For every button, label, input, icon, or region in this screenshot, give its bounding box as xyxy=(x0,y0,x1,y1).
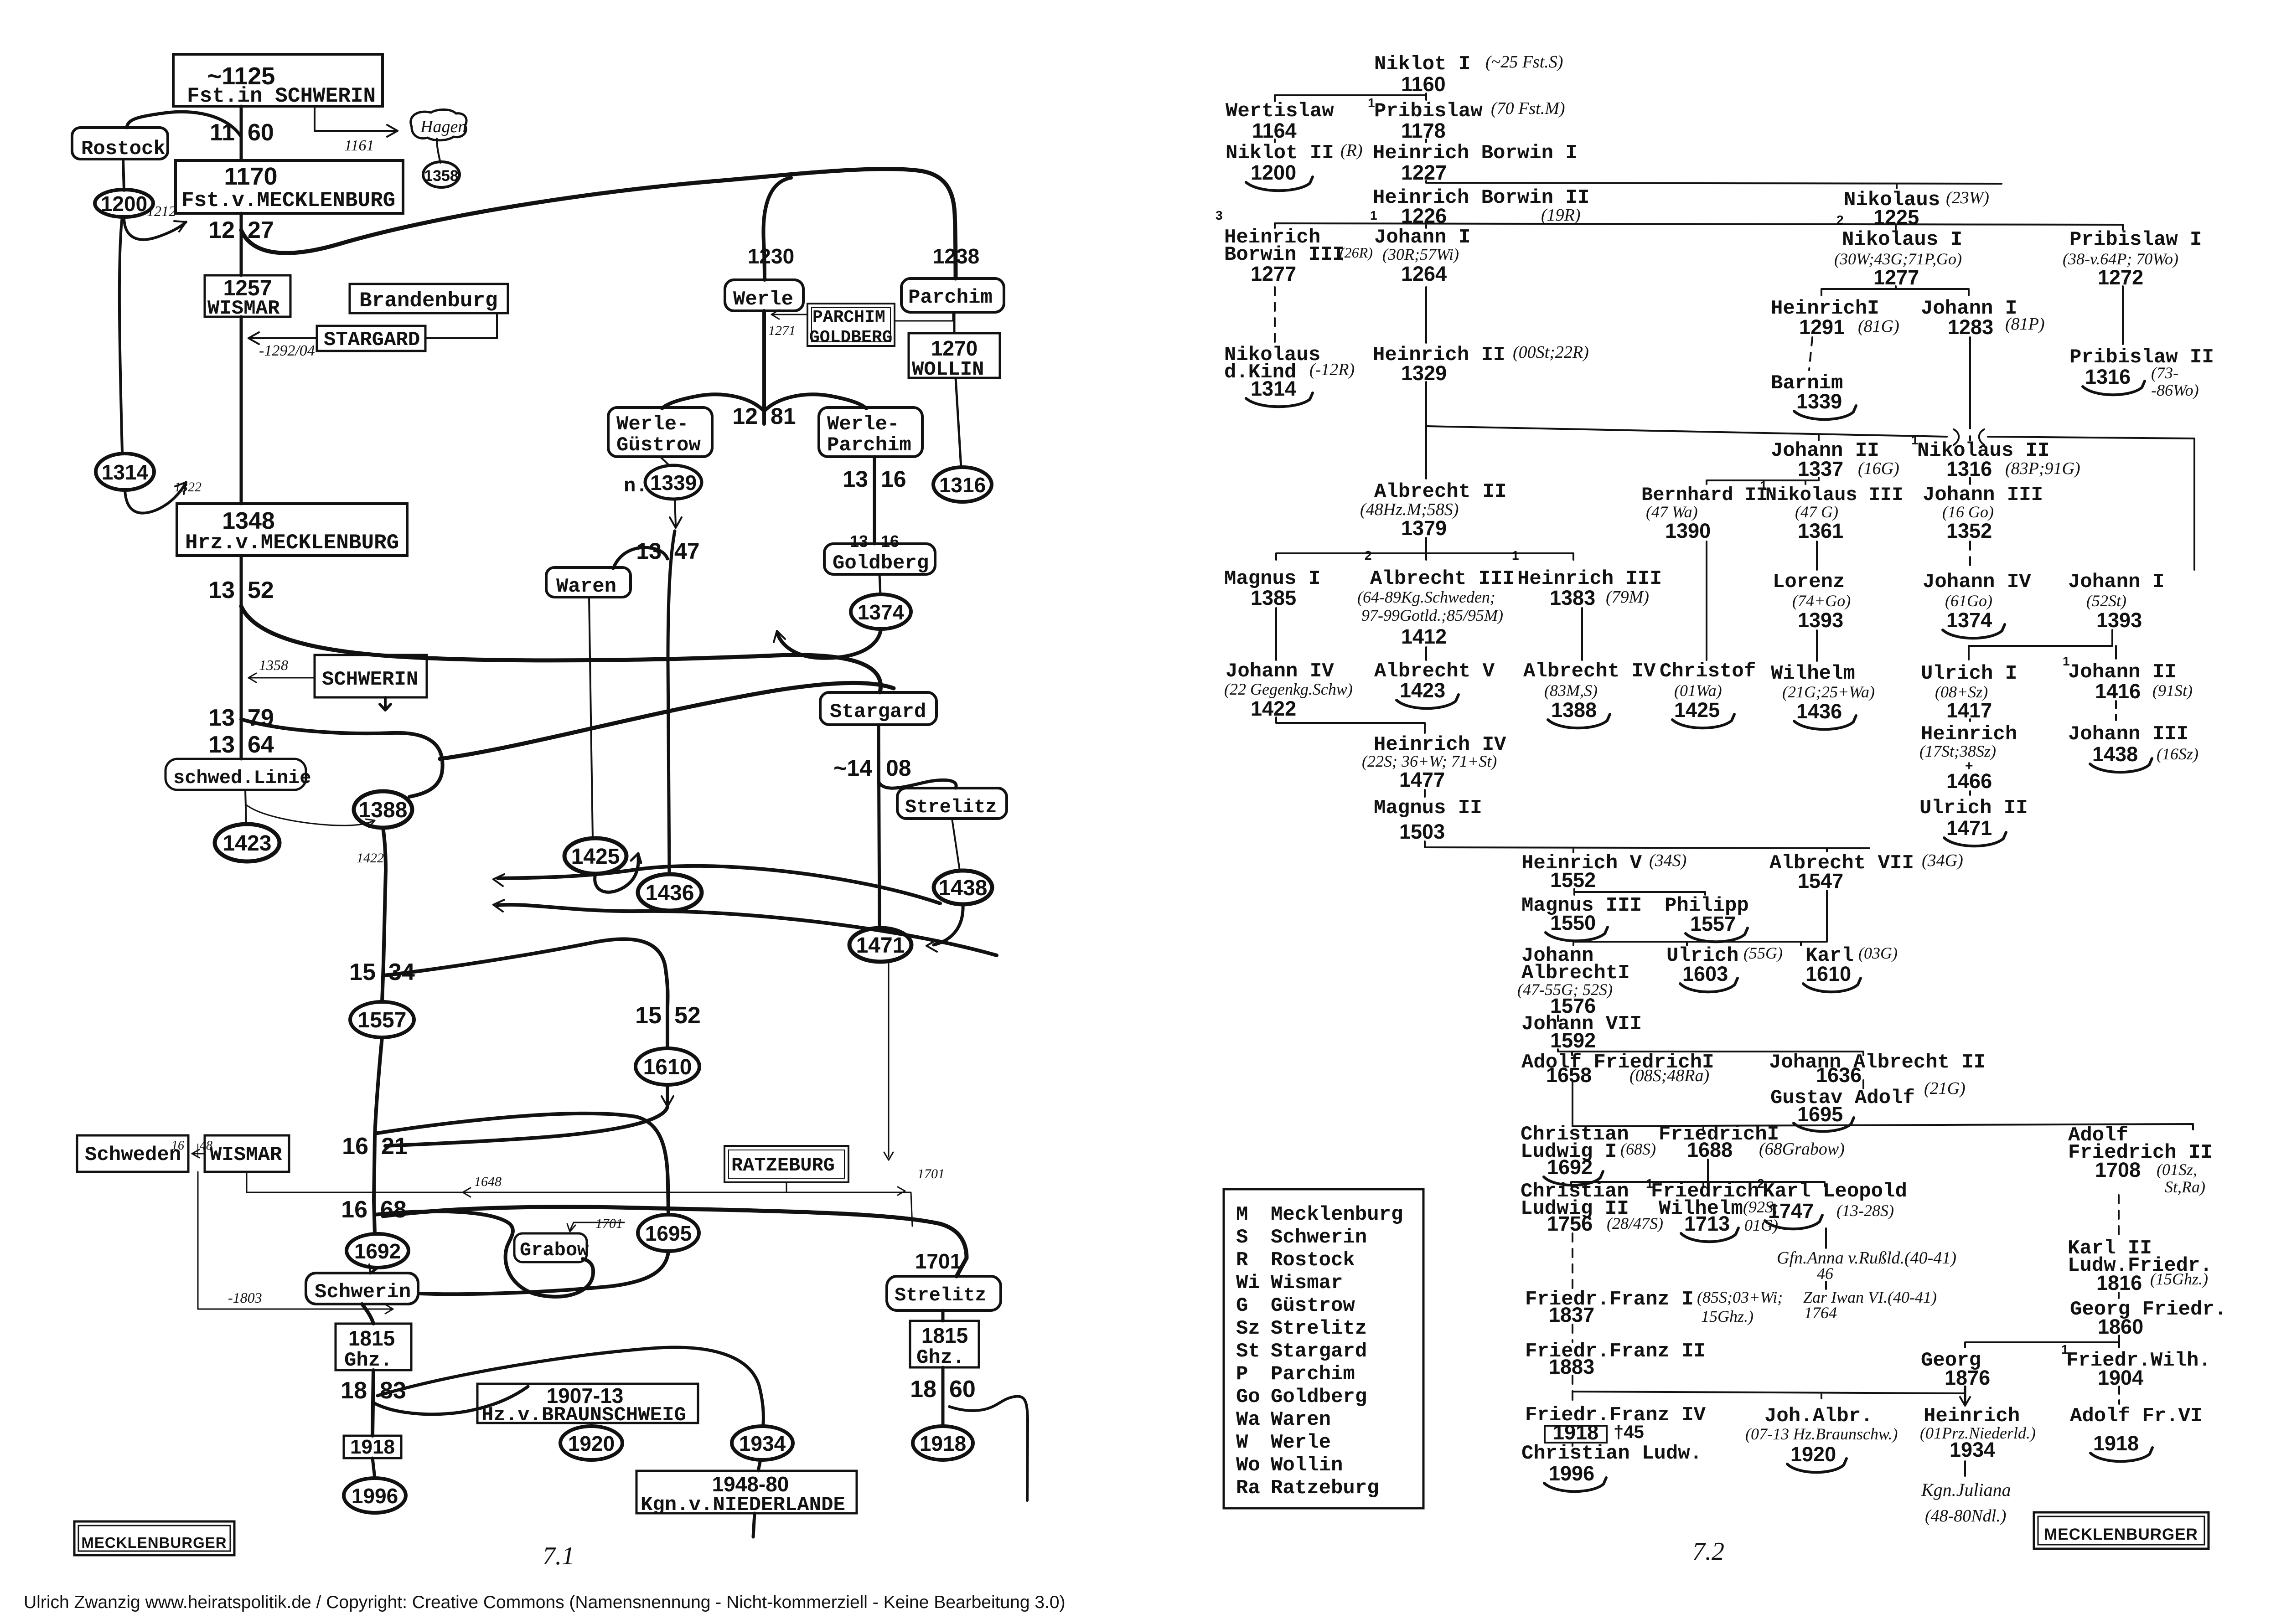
svg-text:(30R;57Wi): (30R;57Wi) xyxy=(1382,245,1459,263)
svg-text:1603: 1603 xyxy=(1682,962,1728,985)
svg-text:52: 52 xyxy=(248,577,274,603)
svg-text:Ghz.: Ghz. xyxy=(916,1346,965,1369)
svg-text:1438: 1438 xyxy=(939,876,988,900)
svg-text:1918: 1918 xyxy=(2093,1432,2139,1455)
svg-text:WISMAR: WISMAR xyxy=(210,1144,282,1166)
wire Anna to Zar Iwan xyxy=(1825,1282,1827,1289)
svg-text:Fst.v.MECKLENBURG: Fst.v.MECKLENBURG xyxy=(181,189,395,212)
svg-text:Georg Friedr.: Georg Friedr. xyxy=(2070,1298,2226,1321)
svg-text:48: 48 xyxy=(200,1139,212,1153)
svg-text:(81G): (81G) xyxy=(1858,317,1899,336)
svg-text:Strelitz: Strelitz xyxy=(1271,1317,1367,1340)
svg-text:n.: n. xyxy=(624,475,648,498)
svg-text:Rostock: Rostock xyxy=(1271,1249,1355,1272)
svg-text:W: W xyxy=(1236,1431,1248,1454)
svg-text:1374: 1374 xyxy=(1946,608,1992,632)
svg-text:Wilhelm: Wilhelm xyxy=(1771,662,1855,685)
svg-text:1423: 1423 xyxy=(223,831,272,856)
svg-text:Güstrow: Güstrow xyxy=(616,434,701,457)
wire Johann IV and Albrecht V to Heinrich IV xyxy=(1276,717,1425,733)
svg-text:1436: 1436 xyxy=(646,881,694,905)
wire Albrecht VII to Ulrich Karl line xyxy=(1573,891,1827,945)
svg-text:PARCHIM: PARCHIM xyxy=(812,308,885,327)
svg-text:1264: 1264 xyxy=(1401,262,1447,285)
svg-text:WISMAR: WISMAR xyxy=(207,297,280,320)
svg-text:16: 16 xyxy=(342,1133,368,1160)
oval 1423 xyxy=(215,824,279,861)
svg-text:1200: 1200 xyxy=(101,192,147,216)
box Rostock xyxy=(72,128,168,159)
svg-text:64: 64 xyxy=(248,732,274,758)
wire main dynasty line top section xyxy=(240,106,243,160)
svg-text:Fst.in SCHWERIN: Fst.in SCHWERIN xyxy=(187,84,376,108)
rounded box Waren xyxy=(546,567,631,597)
svg-text:1816: 1816 xyxy=(2096,1271,2142,1294)
svg-text:(07-13 Hz.Braunschw.): (07-13 Hz.Braunschw.) xyxy=(1745,1425,1898,1443)
wire 1803 line from Schweden down and right xyxy=(198,1172,393,1309)
svg-text:1383: 1383 xyxy=(1550,586,1595,609)
wire 1425 squiggle loop xyxy=(595,857,639,892)
svg-text:1: 1 xyxy=(1370,208,1377,222)
svg-text:13: 13 xyxy=(208,705,235,731)
svg-text:(28/47S): (28/47S) xyxy=(1607,1214,1663,1232)
svg-text:Go: Go xyxy=(1236,1386,1260,1408)
wire thin 1648 line across to Ratzeburg region xyxy=(247,1172,912,1226)
svg-text:1385: 1385 xyxy=(1251,586,1296,609)
svg-text:1227: 1227 xyxy=(1401,161,1447,184)
svg-text:1658: 1658 xyxy=(1546,1063,1592,1087)
svg-text:P: P xyxy=(1236,1363,1248,1386)
svg-text:21: 21 xyxy=(381,1133,408,1160)
wire big sweep to Strelitz 1701 xyxy=(383,1207,967,1276)
svg-text:60: 60 xyxy=(248,119,274,146)
svg-text:1695: 1695 xyxy=(645,1222,692,1245)
wire Heinrich II children sloped line with curls xyxy=(1426,426,1947,437)
svg-text:1934: 1934 xyxy=(739,1432,786,1455)
svg-text:(08S;48Ra): (08S;48Ra) xyxy=(1629,1066,1709,1085)
svg-text:(83P;91G): (83P;91G) xyxy=(2005,459,2080,478)
svg-text:(47 Wa): (47 Wa) xyxy=(1646,503,1698,521)
svg-text:1688: 1688 xyxy=(1687,1138,1733,1161)
wire 1347 line down to 1436 xyxy=(668,531,675,874)
box 1170 Fst.v.MECKLENBURG xyxy=(176,160,403,213)
wire 1883 branch into Braunschweig box xyxy=(374,1387,528,1414)
svg-text:1471: 1471 xyxy=(1946,816,1992,840)
svg-text:15: 15 xyxy=(349,959,376,985)
svg-text:1425: 1425 xyxy=(1674,698,1720,722)
svg-text:1348: 1348 xyxy=(222,508,275,534)
svg-text:(16G): (16G) xyxy=(1858,459,1899,478)
svg-text:Joh.Albr.: Joh.Albr. xyxy=(1764,1405,1873,1428)
svg-text:1557: 1557 xyxy=(1690,912,1736,935)
svg-text:(23W): (23W) xyxy=(1946,188,1989,207)
svg-text:1713: 1713 xyxy=(1684,1212,1730,1235)
svg-text:16: 16 xyxy=(881,532,899,551)
wire Friedrich I children line xyxy=(1571,1160,1825,1186)
svg-text:Ulrich I: Ulrich I xyxy=(1921,662,2017,685)
wire main line 1388 down to 1557 xyxy=(382,828,386,1002)
svg-text:1592: 1592 xyxy=(1550,1029,1596,1052)
svg-text:1692: 1692 xyxy=(354,1239,401,1263)
svg-text:1: 1 xyxy=(1512,548,1519,562)
svg-text:Brandenburg: Brandenburg xyxy=(359,289,498,313)
wire Johann Albrecht I to Johann VII xyxy=(1557,1016,1559,1021)
wire thin 1701 vertical from 1471 xyxy=(888,963,890,1157)
rounded box Goldberg xyxy=(824,544,935,574)
svg-text:1904: 1904 xyxy=(2098,1366,2143,1389)
svg-text:(79M): (79M) xyxy=(1606,588,1649,607)
svg-text:(01Sz,: (01Sz, xyxy=(2157,1160,2197,1179)
svg-text:16: 16 xyxy=(171,1139,184,1153)
svg-text:-86Wo): -86Wo) xyxy=(2151,381,2199,399)
svg-text:1314: 1314 xyxy=(1251,377,1296,400)
svg-text:(34S): (34S) xyxy=(1649,851,1686,870)
svg-text:13: 13 xyxy=(843,466,868,492)
svg-text:1329: 1329 xyxy=(1401,361,1447,385)
svg-text:1322: 1322 xyxy=(174,479,202,495)
wire Hagen to 1358 xyxy=(437,139,440,163)
svg-text:Werle: Werle xyxy=(733,288,793,311)
svg-text:Kgn.v.NIEDERLANDE: Kgn.v.NIEDERLANDE xyxy=(641,1494,845,1516)
svg-text:Schweden: Schweden xyxy=(85,1144,181,1166)
svg-text:1361: 1361 xyxy=(1798,519,1843,542)
svg-text:(48-80Ndl.): (48-80Ndl.) xyxy=(1925,1506,2006,1526)
svg-text:Stargard: Stargard xyxy=(830,701,926,723)
svg-text:1860: 1860 xyxy=(2098,1315,2143,1338)
oval 1557 xyxy=(350,1002,414,1037)
svg-text:1477: 1477 xyxy=(1399,768,1445,791)
svg-text:Güstrow: Güstrow xyxy=(1271,1294,1355,1317)
svg-text:15: 15 xyxy=(635,1002,662,1029)
wire Johann I 52St children line xyxy=(1969,630,2116,660)
svg-text:1178: 1178 xyxy=(1401,119,1446,142)
svg-text:(85S;03+Wi;: (85S;03+Wi; xyxy=(1697,1288,1783,1306)
svg-text:1695: 1695 xyxy=(1797,1103,1843,1126)
svg-text:1200: 1200 xyxy=(1251,161,1296,184)
svg-text:1161: 1161 xyxy=(344,137,374,154)
svg-text:1918: 1918 xyxy=(920,1432,966,1455)
svg-text:Ulrich Zwanzig www.heiratspoli: Ulrich Zwanzig www.heiratspolitik.de / C… xyxy=(24,1593,1066,1612)
box MECKLENBURGER left xyxy=(74,1521,234,1555)
svg-text:1316: 1316 xyxy=(1946,457,1992,480)
svg-text:1272: 1272 xyxy=(2098,266,2143,289)
wire Strelitz down to 1438 xyxy=(952,819,960,871)
svg-text:1996: 1996 xyxy=(352,1484,398,1508)
wire Karl Leopold down to Anna xyxy=(1825,1228,1827,1248)
wire Johann I 1283 down to junction xyxy=(1969,337,1971,428)
arrow 1701 into Grabow xyxy=(574,1222,624,1223)
svg-text:1390: 1390 xyxy=(1665,519,1711,542)
svg-text:12: 12 xyxy=(208,217,235,243)
svg-text:Kgn.Juliana: Kgn.Juliana xyxy=(1921,1480,2011,1500)
svg-text:Johann IV: Johann IV xyxy=(1923,571,2031,593)
svg-text:(17St;38Sz): (17St;38Sz) xyxy=(1919,742,1996,760)
svg-text:1552: 1552 xyxy=(1550,868,1596,892)
wire Werle-Guestrow to 1339 xyxy=(660,457,670,466)
svg-text:1291: 1291 xyxy=(1799,315,1845,339)
svg-text:27: 27 xyxy=(248,217,274,243)
wire to Christian Ludw xyxy=(1572,1443,1573,1446)
svg-text:Parchim: Parchim xyxy=(1271,1363,1355,1386)
svg-text:(68Grabow): (68Grabow) xyxy=(1759,1139,1845,1159)
svg-text:Hrz.v.MECKLENBURG: Hrz.v.MECKLENBURG xyxy=(185,531,399,555)
svg-text:GOLDBERG: GOLDBERG xyxy=(809,328,892,347)
wire dashed Borwin III to Nikolaus d.Kind xyxy=(1274,287,1276,343)
wire Nikolaus II to Johann III xyxy=(1969,478,1971,484)
svg-text:97-99Gotld.;85/95M): 97-99Gotld.;85/95M) xyxy=(1361,606,1503,624)
svg-text:(34G): (34G) xyxy=(1922,851,1963,870)
arrow 1339 down xyxy=(675,499,676,525)
wire dashed Friedr Franz II to children line xyxy=(1572,1376,1573,1392)
svg-text:MECKLENBURGER: MECKLENBURGER xyxy=(81,1534,227,1551)
svg-text:1948-80: 1948-80 xyxy=(712,1472,789,1496)
svg-text:Goldberg: Goldberg xyxy=(1271,1386,1367,1408)
svg-text:SCHWERIN: SCHWERIN xyxy=(322,668,418,691)
wire 1352 sweep to Stargard xyxy=(241,606,881,692)
box 1270 WOLLIN xyxy=(909,333,1000,378)
svg-text:Ra: Ra xyxy=(1236,1477,1260,1500)
svg-text:(19R): (19R) xyxy=(1541,206,1581,225)
svg-text:1918: 1918 xyxy=(350,1436,395,1458)
wire second mid strand xyxy=(440,683,894,759)
wire 1883 long arc to 1934 xyxy=(378,1347,763,1424)
svg-text:1393: 1393 xyxy=(2096,608,2142,632)
rounded box Werle-Parchim xyxy=(819,407,922,457)
svg-text:1934: 1934 xyxy=(1950,1438,1995,1461)
svg-text:(15Ghz.): (15Ghz.) xyxy=(2150,1270,2208,1288)
svg-text:1230: 1230 xyxy=(748,244,794,268)
svg-text:Werle-: Werle- xyxy=(616,413,688,436)
svg-text:1160: 1160 xyxy=(1401,72,1446,96)
wire Albrecht III to Albrecht V xyxy=(1425,647,1427,660)
svg-text:Waren: Waren xyxy=(1271,1408,1331,1431)
svg-text:(08+Sz): (08+Sz) xyxy=(1935,683,1988,701)
wire Nikolaus III to Lorenz xyxy=(1816,541,1818,570)
svg-text:Wa: Wa xyxy=(1236,1408,1260,1431)
svg-text:Rostock: Rostock xyxy=(81,138,166,160)
wire Bernhard II to Christof xyxy=(1706,541,1707,660)
wire Heinrich to Kgn Juliana xyxy=(1964,1461,1966,1476)
wire Werle down to 1281 junction xyxy=(762,311,766,424)
svg-text:(73-: (73- xyxy=(2151,364,2178,382)
svg-text:1701: 1701 xyxy=(917,1166,945,1181)
svg-text:(47 G): (47 G) xyxy=(1795,503,1838,521)
svg-text:1503: 1503 xyxy=(1399,820,1445,843)
svg-text:Stargard: Stargard xyxy=(1271,1340,1367,1363)
svg-text:1747: 1747 xyxy=(1768,1199,1814,1222)
svg-text:R: R xyxy=(1236,1249,1248,1272)
rounded box schwed.Linie xyxy=(166,759,306,790)
wire big sweep 1227 to Werle and Parchim xyxy=(241,169,956,278)
arrow 1422 from 1423 line to 1388 xyxy=(246,804,375,825)
svg-text:1708: 1708 xyxy=(2095,1158,2141,1181)
svg-text:1918: 1918 xyxy=(1553,1421,1598,1444)
svg-text:(21G;25+Wa): (21G;25+Wa) xyxy=(1782,683,1875,701)
wire Nikolaus I children line xyxy=(1821,286,1969,295)
svg-text:Grabow: Grabow xyxy=(520,1239,589,1261)
wire Albrecht II children line xyxy=(1276,538,1573,560)
svg-text:Parchim: Parchim xyxy=(827,434,911,457)
svg-text:Johann IV: Johann IV xyxy=(1226,660,1334,683)
svg-text:7.1: 7.1 xyxy=(543,1542,574,1570)
svg-text:(21G): (21G) xyxy=(1924,1079,1966,1098)
svg-text:47: 47 xyxy=(674,538,700,564)
wire Stargard branch to Strelitz left xyxy=(879,780,956,788)
wire Heinrich III to Albrecht IV xyxy=(1581,608,1583,660)
wire Waren down to 1425 xyxy=(589,597,593,839)
svg-text:1764: 1764 xyxy=(1804,1304,1837,1322)
wire Schwerin to 1815 Ghz left xyxy=(362,1304,373,1324)
svg-text:1164: 1164 xyxy=(1252,119,1297,142)
svg-text:1270: 1270 xyxy=(931,336,978,360)
svg-text:1358: 1358 xyxy=(424,167,459,185)
wire 1918 to 1996 xyxy=(372,1458,375,1478)
svg-text:Ratzeburg: Ratzeburg xyxy=(1271,1477,1379,1500)
oval 1918 right xyxy=(913,1426,973,1460)
oval 1692 xyxy=(347,1234,409,1268)
svg-text:(22 Gegenkg.Schw): (22 Gegenkg.Schw) xyxy=(1224,680,1353,698)
svg-text:13: 13 xyxy=(208,577,235,603)
svg-text:1316: 1316 xyxy=(2085,365,2131,388)
svg-text:1314: 1314 xyxy=(102,460,149,484)
wire 1374 return arrow to left xyxy=(778,629,881,658)
svg-text:1277: 1277 xyxy=(1251,262,1296,285)
svg-text:1557: 1557 xyxy=(358,1008,407,1032)
svg-text:St: St xyxy=(1236,1340,1260,1363)
arrow 1610 down xyxy=(666,1085,669,1104)
svg-text:1379: 1379 xyxy=(1401,516,1447,540)
svg-text:(38-v.64P; 70Wo): (38-v.64P; 70Wo) xyxy=(2063,250,2178,268)
wire Pribislaw to Heinrich Borwin I xyxy=(1425,139,1427,142)
svg-text:2: 2 xyxy=(1836,213,1844,227)
svg-text:(R): (R) xyxy=(1340,141,1363,160)
wire NIEDERLANDE tail xyxy=(753,1513,755,1537)
svg-text:Wo: Wo xyxy=(1236,1454,1260,1477)
svg-text:Johann Albrecht II: Johann Albrecht II xyxy=(1769,1051,1986,1074)
wire Werle-Parchim down to Goldberg xyxy=(873,457,876,544)
wire Magnus II children line xyxy=(1425,841,1869,852)
svg-text:Mecklenburg: Mecklenburg xyxy=(1271,1203,1403,1226)
svg-text:13: 13 xyxy=(208,732,235,758)
svg-text:1425: 1425 xyxy=(571,845,620,869)
wire Parchim to PARCHIM GOLDBERG elbow xyxy=(895,312,953,321)
svg-text:1996: 1996 xyxy=(1549,1462,1594,1485)
wire 1668 branch to 1695 xyxy=(375,1114,668,1215)
svg-text:Strelitz: Strelitz xyxy=(895,1284,987,1306)
svg-text:Nikolaus I: Nikolaus I xyxy=(1842,228,1962,251)
svg-text:S: S xyxy=(1236,1226,1248,1249)
svg-text:Schwerin: Schwerin xyxy=(1271,1226,1367,1249)
svg-text:1412: 1412 xyxy=(1401,625,1447,648)
svg-text:1636: 1636 xyxy=(1816,1063,1862,1087)
svg-text:1436: 1436 xyxy=(1796,700,1842,723)
svg-text:Albrecht III: Albrecht III xyxy=(1370,567,1515,590)
svg-text:52: 52 xyxy=(674,1002,701,1029)
svg-text:1815: 1815 xyxy=(348,1326,395,1350)
box 1918 Friedr Franz IV xyxy=(1545,1426,1607,1443)
svg-text:1316: 1316 xyxy=(939,473,986,497)
rounded box Grabow xyxy=(514,1233,587,1262)
wire Strelitz to 1815 Ghz right xyxy=(941,1310,945,1321)
svg-text:(13-28S): (13-28S) xyxy=(1836,1201,1894,1220)
wire Lorenz to Wilhelm xyxy=(1816,630,1818,661)
wire main line 1557 to 1692 xyxy=(374,1037,382,1234)
svg-text:1438: 1438 xyxy=(2092,742,2138,766)
svg-text:1337: 1337 xyxy=(1798,457,1843,480)
svg-text:1358: 1358 xyxy=(259,657,288,673)
svg-text:-1292/04: -1292/04 xyxy=(259,342,315,359)
wire 1668 branch Grabow loop xyxy=(374,1212,593,1297)
box Brandenburg xyxy=(350,284,508,313)
wire left return arrow lower xyxy=(498,905,997,955)
wire dashed Christian Ludwig II to Friedr Franz I xyxy=(1572,1233,1573,1290)
svg-text:Strelitz: Strelitz xyxy=(905,796,997,818)
oval 1436 xyxy=(638,874,702,911)
svg-text:STARGARD: STARGARD xyxy=(324,329,420,351)
wire Johann II to Johann III dashed xyxy=(2115,701,2117,720)
svg-text:1815: 1815 xyxy=(921,1324,968,1347)
oval 1610 xyxy=(636,1048,699,1085)
svg-text:1388: 1388 xyxy=(359,798,408,822)
svg-text:1339: 1339 xyxy=(1796,390,1842,413)
wire branch down to Werle xyxy=(763,178,791,280)
box 1348 Hrz.v.MECKLENBURG xyxy=(177,504,407,556)
rounded box Werle-Guestrow xyxy=(608,407,712,457)
svg-text:60: 60 xyxy=(949,1376,976,1402)
svg-text:(70 Fst.M): (70 Fst.M) xyxy=(1491,99,1565,118)
wire schwed.Linie down to 1423 xyxy=(245,790,246,824)
box Stargard left xyxy=(820,692,936,725)
svg-text:11: 11 xyxy=(210,119,235,146)
svg-text:~14: ~14 xyxy=(833,755,872,781)
svg-text:Werle-: Werle- xyxy=(827,413,899,436)
svg-text:2: 2 xyxy=(1365,548,1372,562)
box RATZEBURG xyxy=(724,1146,848,1182)
box 1907-13 Hz.v.BRAUNSCHWEIG xyxy=(477,1384,698,1423)
wire Heinrich Borwin I children line xyxy=(1426,181,2002,188)
svg-text:18: 18 xyxy=(910,1376,936,1402)
oval 1934 xyxy=(732,1426,793,1460)
svg-text:(16 Go): (16 Go) xyxy=(1942,503,1994,521)
svg-text:18: 18 xyxy=(341,1377,367,1404)
svg-text:Werle: Werle xyxy=(1271,1431,1331,1454)
wire Johann II children bracket xyxy=(1707,478,1819,484)
svg-text:1393: 1393 xyxy=(1798,608,1843,632)
wire 1281 branch to Werle-Guestrow xyxy=(662,394,764,411)
arrow WISMAR to Schweden 1648 xyxy=(192,1153,205,1155)
wire Rostock line down to 1314 xyxy=(119,217,122,452)
wire Pribislaw I to Pribislaw II xyxy=(2122,286,2124,344)
oval 1695 xyxy=(638,1215,699,1251)
oval 1358 xyxy=(423,162,460,187)
svg-text:(~25 Fst.S): (~25 Fst.S) xyxy=(1485,52,1563,72)
wire Karl II to Georg Friedr xyxy=(2118,1293,2120,1298)
svg-text:(00St;22R): (00St;22R) xyxy=(1513,343,1589,362)
svg-text:-1803: -1803 xyxy=(228,1289,262,1306)
wire 1934 to NIEDERLANDE box xyxy=(758,1460,760,1471)
box PARCHIM GOLDBERG xyxy=(807,304,895,346)
svg-text:Adolf Fr.VI: Adolf Fr.VI xyxy=(2070,1405,2202,1428)
svg-text:1271: 1271 xyxy=(768,323,796,338)
svg-text:1920: 1920 xyxy=(568,1432,615,1455)
svg-text:1422: 1422 xyxy=(1251,697,1296,720)
oval 1438 xyxy=(934,871,992,904)
svg-text:1883: 1883 xyxy=(1549,1355,1594,1378)
box 1257 WISMAR xyxy=(205,275,290,317)
svg-text:7.2: 7.2 xyxy=(1692,1537,1724,1566)
box 1918 left xyxy=(344,1436,401,1458)
wire 1281 branch to Werle-Parchim xyxy=(764,394,866,411)
